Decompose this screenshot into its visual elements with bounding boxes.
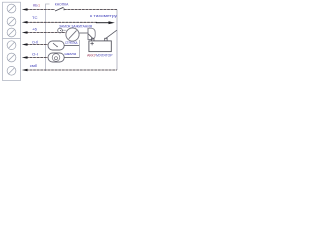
arrow W2 right head [109,21,115,24]
svg-text:+6: +6 [32,27,37,31]
wire W4 base [26,44,49,46]
wire gauge G1 output [64,45,79,47]
gauge G2 dial [52,54,60,62]
arrow W1 [22,8,28,11]
wire W6 base [26,69,117,71]
battery plus sign [90,42,93,45]
wire W2 arrow segment to tachometer [96,22,109,24]
svg-text:смб: смб [30,64,37,68]
svg-text:1: 1 [38,3,40,7]
svg-text:О-б: О-б [32,40,38,44]
arrow W4 [22,43,28,46]
svg-text:шкала: шкала [65,52,77,56]
terminal 3 [7,28,16,37]
arrow W5 [22,56,28,59]
arrow W2 left [22,21,28,24]
wire W5 dark dashes [26,57,49,59]
terminal 2 [7,17,16,26]
battery GB1 body [89,41,111,52]
svg-text:МУЛЯТОР: МУЛЯТОР [96,53,113,57]
wire W5 base [26,57,49,59]
wire W2 dark dashes [26,21,97,23]
terminal 4 [7,41,16,50]
svg-text:ТС: ТС [32,16,38,20]
wire lock to horn [80,32,89,34]
battery terminal stub right [105,38,107,41]
wire W1 base [26,9,55,11]
wire W6 dark dashes [26,69,117,71]
switch SA1 blade [55,7,64,11]
wire W1 right dark dashes [64,9,117,11]
wire W4 dark dashes [26,44,49,46]
wire gauge G2 output [64,57,79,59]
svg-text:ЗАМОК ЗАЖИГАНИЯ: ЗАМОК ЗАЖИГАНИЯ [59,25,93,29]
svg-text:О-I: О-I [32,53,38,57]
terminal 1 [7,4,16,13]
wire W3 base [26,32,66,34]
svg-text:к тахометру: к тахометру [90,14,118,18]
terminal 6 [7,66,16,75]
arrow W3 [22,31,28,34]
wire W2 base [26,21,97,23]
gauge G2 lamp [55,57,58,60]
terminal block XT1 [3,2,21,80]
battery terminal stub left [92,38,94,41]
wire W3 dark dashes [26,32,66,34]
gauge bus vertical [79,40,81,58]
gauge G2 (scale lamp) body [48,53,64,62]
battery lead left diagonal [88,34,92,39]
gauge G1 (needle instrument) body [48,41,64,50]
wire W1 dark dashes [26,9,55,11]
ignition key symbol [58,28,67,33]
gauge G1 needle [53,43,58,47]
horn HA1 (semicircle) [88,28,95,40]
wire W1 right part base [64,9,117,11]
svg-text:СТРЕЛКА: СТРЕЛКА [65,41,78,45]
bus wire (right vertical) [116,10,118,71]
battery lead right diagonal [106,30,117,38]
switch SA1 contact tick [63,8,65,10]
ignition lock SW (circle with key slot) [66,28,79,41]
terminal 5 [7,53,16,62]
enclosure boundary line (left vertical) [46,4,50,71]
svg-text:КНОПКА: КНОПКА [55,3,69,7]
arrow W6 [22,69,28,72]
